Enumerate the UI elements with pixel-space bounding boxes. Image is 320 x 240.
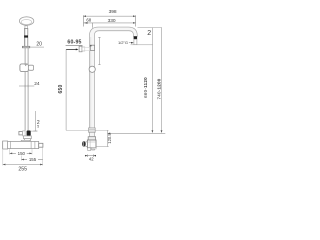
svg-text:68: 68: [86, 17, 91, 22]
svg-text:2: 2: [147, 30, 151, 37]
svg-text:1/2"G: 1/2"G: [118, 40, 128, 45]
svg-text:398: 398: [109, 9, 117, 15]
svg-text:120.5: 120.5: [107, 133, 112, 144]
svg-text:255: 255: [18, 167, 27, 173]
svg-text:42: 42: [89, 157, 94, 162]
svg-text:150: 150: [18, 151, 26, 156]
svg-text:20: 20: [36, 42, 42, 48]
svg-text:24: 24: [34, 81, 40, 87]
svg-text:650: 650: [58, 85, 64, 94]
svg-text:740-1200: 740-1200: [156, 78, 161, 99]
svg-text:660-1120: 660-1120: [143, 77, 148, 98]
svg-text:5: 5: [37, 125, 39, 129]
svg-text:330: 330: [108, 18, 116, 24]
svg-text:60-95: 60-95: [67, 40, 81, 46]
svg-text:155: 155: [29, 157, 37, 162]
